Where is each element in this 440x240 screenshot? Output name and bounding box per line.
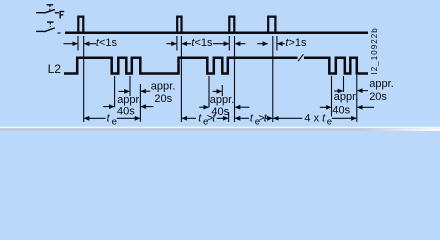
extension line pulse4 mid (long) <box>272 36 274 122</box>
break slash on L2 high segment <box>298 54 303 61</box>
actuator link S2 (dashed) <box>49 23 51 27</box>
dim t<1s #1 arrows <box>64 43 78 45</box>
svg-text:L2: L2 <box>48 62 62 76</box>
L2 waveform <box>64 58 368 74</box>
mid cluster thin lines <box>208 76 210 107</box>
svg-text:appr.: appr. <box>210 94 234 106</box>
push-button switch S1 (top) <box>36 5 59 13</box>
bottom bevel strip <box>0 128 440 131</box>
right appr.40s dim arrows <box>320 106 331 108</box>
te>t dim #2 <box>235 117 249 119</box>
svg-text:e: e <box>112 116 117 127</box>
4xte dim <box>274 117 303 119</box>
mid appr.40s dim arrows <box>199 106 208 108</box>
wire S1 right terminal <box>55 12 59 14</box>
dim t>1s arrows <box>257 43 267 45</box>
svg-text:I2_10922b: I2_10922b <box>370 27 379 74</box>
label F <box>60 11 64 19</box>
svg-text:20s: 20s <box>369 91 387 103</box>
switch blade S1 <box>44 10 55 14</box>
right appr.20s arrow <box>358 90 368 92</box>
wire S1 left terminal <box>36 12 44 14</box>
left appr.20s dim arrows <box>141 90 150 92</box>
svg-text:t>1s: t>1s <box>285 37 307 49</box>
te dim <box>84 117 105 119</box>
dim t<1s #2 arrows <box>166 43 176 45</box>
actuator bar S1 <box>47 4 54 6</box>
svg-text:appr.: appr. <box>334 91 358 103</box>
svg-text:40s: 40s <box>117 105 135 117</box>
svg-text:appr.: appr. <box>369 78 393 90</box>
actuator bar S2 <box>47 21 54 23</box>
svg-text:t<1s: t<1s <box>96 37 118 49</box>
right mini arrow <box>334 90 343 92</box>
mid mini arrow <box>213 90 222 92</box>
extension line pulse4 right <box>276 36 278 51</box>
left appr.40s dim arrows <box>103 106 114 108</box>
extension line pulse3 left <box>228 36 230 51</box>
wire S2 to signal line <box>57 32 60 34</box>
push-button switch S2 (bottom) <box>36 22 61 33</box>
extension line pulse1 right (long) <box>83 36 85 122</box>
svg-text:t<1s: t<1s <box>191 37 213 49</box>
svg-text:e: e <box>327 116 332 127</box>
left mini arrow <box>119 90 130 92</box>
svg-text:20s: 20s <box>154 93 172 105</box>
extension line pulse1 left <box>77 36 79 51</box>
extension line pulse2 left <box>176 36 178 51</box>
svg-text:appr.: appr. <box>117 94 141 106</box>
extension line pulse2 right (long) <box>180 36 182 122</box>
svg-text:4 x t: 4 x t <box>304 112 326 124</box>
pulse 1 <box>78 17 83 33</box>
right cluster thin lines <box>331 76 333 117</box>
top trace baseline <box>65 31 368 34</box>
svg-text:appr.: appr. <box>151 80 175 92</box>
left cluster thin lines <box>114 76 116 107</box>
svg-text:40s: 40s <box>332 105 350 117</box>
extension line pulse3 right (long) <box>234 36 236 122</box>
te>t dim #1 <box>182 117 196 119</box>
switch blade S2 <box>44 28 55 32</box>
wire S2 left terminal <box>36 30 44 32</box>
short line te>t end <box>228 112 230 122</box>
pulse 2 <box>177 17 181 33</box>
pulse 3 <box>229 17 234 33</box>
pulse 4 (long press) <box>268 17 275 33</box>
actuator link S1 (dashed) <box>49 6 51 12</box>
bottom bevel light line <box>0 127 440 129</box>
